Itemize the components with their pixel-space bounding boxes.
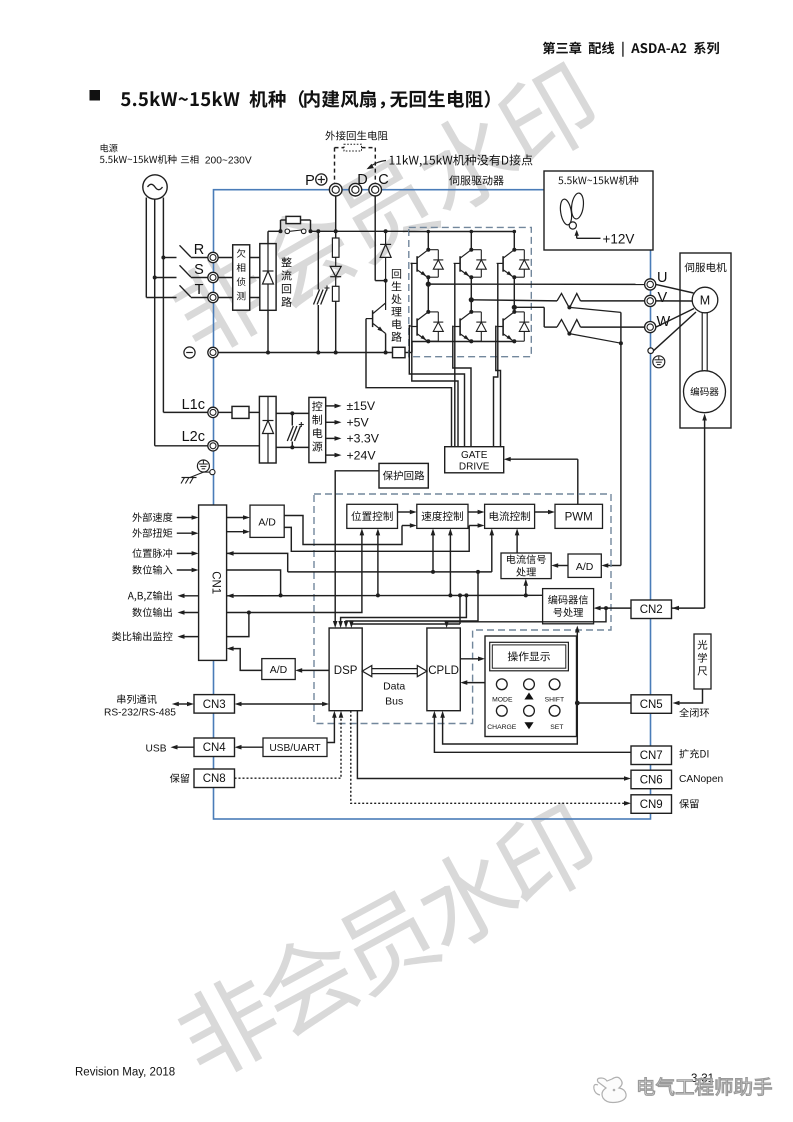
- svg-text:+5V: +5V: [347, 416, 370, 430]
- svg-text:CN7: CN7: [640, 750, 663, 762]
- svg-text:+24V: +24V: [347, 448, 377, 462]
- svg-text:±15V: ±15V: [347, 399, 376, 413]
- svg-text:CN8: CN8: [203, 773, 226, 785]
- svg-text:CN9: CN9: [640, 799, 663, 811]
- svg-text:CN3: CN3: [203, 699, 226, 711]
- svg-text:CHARGE: CHARGE: [487, 724, 517, 731]
- svg-text:U: U: [657, 270, 667, 286]
- svg-text:CN1: CN1: [210, 571, 222, 594]
- svg-text:P: P: [305, 173, 315, 189]
- svg-text:PWM: PWM: [565, 511, 593, 523]
- svg-text:A/D: A/D: [576, 561, 594, 573]
- svg-text:CN2: CN2: [640, 604, 663, 616]
- svg-text:L1c: L1c: [182, 397, 205, 413]
- svg-text:V: V: [658, 290, 668, 306]
- svg-text:USB/UART: USB/UART: [269, 743, 320, 754]
- svg-text:CN4: CN4: [203, 742, 227, 754]
- svg-text:Bus: Bus: [385, 696, 403, 708]
- svg-text:T: T: [195, 282, 204, 298]
- svg-text:GATE: GATE: [461, 450, 488, 461]
- svg-text:DRIVE: DRIVE: [459, 461, 490, 472]
- svg-text:MODE: MODE: [492, 696, 513, 703]
- svg-text:USB: USB: [146, 744, 167, 755]
- svg-text:CN6: CN6: [640, 775, 663, 787]
- svg-text:Data: Data: [383, 681, 405, 693]
- svg-text:S: S: [194, 262, 204, 278]
- svg-text:A/D: A/D: [270, 664, 288, 676]
- svg-text:+3.3V: +3.3V: [347, 432, 380, 446]
- svg-text:M: M: [700, 294, 710, 308]
- svg-text:L2c: L2c: [182, 429, 205, 445]
- svg-text:CPLD: CPLD: [428, 665, 459, 677]
- svg-text:RS-232/RS-485: RS-232/RS-485: [104, 708, 176, 719]
- svg-text:A/D: A/D: [258, 516, 276, 528]
- svg-text:+12V: +12V: [603, 232, 635, 247]
- svg-text:W: W: [657, 314, 671, 330]
- svg-text:SHIFT: SHIFT: [545, 696, 565, 703]
- svg-text:SET: SET: [550, 724, 563, 731]
- svg-text:Revision May, 2018: Revision May, 2018: [75, 1067, 175, 1079]
- svg-text:DSP: DSP: [334, 665, 358, 677]
- svg-text:CN5: CN5: [640, 699, 663, 711]
- svg-text:R: R: [194, 242, 204, 258]
- svg-text:CANopen: CANopen: [679, 774, 723, 785]
- svg-text:200~230V: 200~230V: [205, 155, 252, 166]
